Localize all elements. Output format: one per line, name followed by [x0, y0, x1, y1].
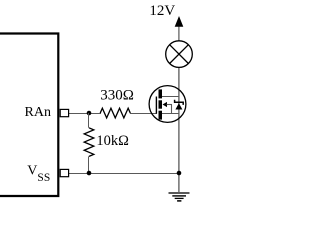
pin label VSS: [27, 164, 50, 184]
pin label RAn: [25, 105, 51, 120]
junction dot VSS/source rail: [177, 171, 182, 176]
junction dot VSS/R2 node: [87, 171, 92, 176]
ground: [169, 193, 190, 201]
wire lamp to drain / source to ground rail: [178, 67, 180, 192]
transistor Q1 n-channel MOSFET envelope: [149, 86, 186, 123]
Q1 gate bar: [155, 97, 157, 114]
Q1 source channel bar: [159, 111, 163, 120]
Q1 drain channel bar: [159, 89, 163, 98]
svg-text:330Ω: 330Ω: [100, 88, 134, 104]
supply label 12V: [149, 3, 175, 19]
Q1 body arrow: [163, 102, 173, 114]
wire R1 to gate: [130, 113, 157, 115]
wire RAn pin to R1: [69, 113, 101, 115]
Q1 source connection: [162, 113, 180, 115]
svg-text:10kΩ: 10kΩ: [96, 133, 129, 149]
label 10k ohm: [96, 133, 129, 149]
Q1 body diode triangle: [175, 103, 182, 109]
label 330 ohm: [100, 88, 134, 104]
lamp DS1: [166, 41, 193, 68]
wire 12V arrow to lamp: [178, 27, 180, 42]
pin VSS: [60, 169, 68, 176]
Q1 body channel bar: [159, 100, 163, 108]
resistor R1 330 ohm horizontal: [100, 108, 130, 118]
Q1 body diode cathode bar: [175, 100, 184, 105]
pin RAn: [60, 109, 68, 116]
svg-text:12V: 12V: [149, 3, 175, 19]
microcontroller box U1: [0, 34, 58, 197]
Q1 drain connection: [162, 96, 180, 98]
junction dot RAn/R2 node: [87, 111, 92, 116]
wire VSS row: [69, 173, 180, 175]
resistor R2 10k ohm vertical: [84, 113, 94, 173]
svg-text:RAn: RAn: [25, 105, 51, 120]
supply arrow 12V: [175, 16, 184, 27]
